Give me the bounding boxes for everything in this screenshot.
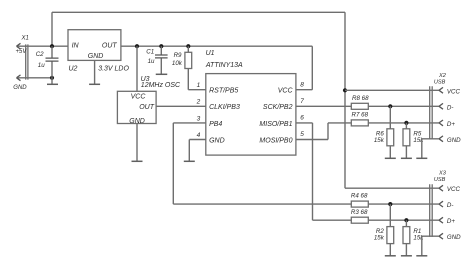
svg-text:R7 68: R7 68 bbox=[352, 112, 369, 119]
node U3 VCC tap bbox=[135, 44, 139, 48]
svg-text:3.3V LDO: 3.3V LDO bbox=[98, 66, 129, 73]
svg-text:10k: 10k bbox=[172, 60, 183, 67]
svg-text:5: 5 bbox=[300, 131, 304, 138]
svg-text:R4 68: R4 68 bbox=[351, 193, 368, 200]
wire top +5V rail bbox=[52, 12, 345, 188]
svg-text:6: 6 bbox=[300, 115, 304, 122]
regulator U2 bbox=[68, 30, 129, 73]
svg-text:D-: D- bbox=[447, 202, 454, 209]
wire R8 to X2 D- bbox=[368, 105, 439, 107]
MCU U1 ATTINY13A bbox=[196, 50, 305, 155]
node X3 D+ / R1 bbox=[404, 218, 408, 222]
wire pin 7 SCK to R8 bbox=[296, 105, 351, 107]
wire X2 VCC bbox=[345, 89, 439, 91]
svg-text:U2: U2 bbox=[69, 66, 78, 73]
svg-text:8: 8 bbox=[300, 81, 304, 88]
ground under X2 GND bbox=[416, 157, 427, 159]
svg-text:ATTINY13A: ATTINY13A bbox=[205, 62, 243, 69]
svg-text:VCC: VCC bbox=[447, 186, 461, 193]
svg-text:3: 3 bbox=[197, 115, 201, 122]
svg-text:D-: D- bbox=[447, 104, 454, 111]
node GND junction bbox=[50, 76, 54, 80]
svg-text:X1: X1 bbox=[21, 35, 29, 41]
ground under R5 bbox=[401, 157, 412, 159]
wire pin 3 PB4 to X3 D- bbox=[173, 123, 351, 204]
svg-text:D+: D+ bbox=[447, 218, 455, 225]
wire R7 to X2 D+ bbox=[368, 122, 439, 124]
oscillator U3 bbox=[117, 46, 181, 125]
resistor R2 bbox=[374, 204, 394, 256]
node R9 tap bbox=[186, 44, 190, 48]
svg-text:12MHz OSC: 12MHz OSC bbox=[141, 82, 181, 89]
wire pin 5 MOSI jog up to R7 bbox=[296, 123, 351, 140]
svg-text:15k: 15k bbox=[374, 235, 385, 242]
svg-text:CLKI/PB3: CLKI/PB3 bbox=[209, 104, 240, 111]
capacitor C2 bbox=[36, 46, 59, 78]
svg-text:USB: USB bbox=[434, 177, 446, 183]
svg-text:VCC: VCC bbox=[278, 88, 294, 95]
svg-text:GND: GND bbox=[447, 137, 461, 144]
svg-text:1u: 1u bbox=[148, 58, 155, 65]
svg-text:X3: X3 bbox=[438, 171, 447, 177]
svg-text:15k: 15k bbox=[374, 137, 385, 144]
ground under R2 bbox=[385, 255, 396, 257]
svg-text:MISO/PB1: MISO/PB1 bbox=[259, 121, 292, 128]
svg-text:OUT: OUT bbox=[139, 104, 155, 111]
ground under C2/X1 bbox=[47, 78, 58, 85]
ground under U3 bbox=[132, 124, 143, 162]
resistor R7 bbox=[351, 112, 368, 126]
svg-text:RST/PB5: RST/PB5 bbox=[209, 88, 238, 95]
node X2 D+ / R5 bbox=[404, 121, 408, 125]
resistor R4 bbox=[351, 193, 368, 207]
resistor R8 bbox=[351, 95, 369, 109]
svg-text:SCK/PB2: SCK/PB2 bbox=[263, 104, 293, 111]
svg-text:GND: GND bbox=[13, 85, 27, 91]
ground under X3 GND bbox=[416, 255, 427, 257]
svg-text:X2: X2 bbox=[438, 73, 447, 79]
svg-text:+5V: +5V bbox=[16, 49, 28, 55]
wire R3 to X3 D+ bbox=[368, 219, 439, 221]
svg-text:R3 68: R3 68 bbox=[351, 209, 368, 216]
wire pin 6 MISO to X3 D+ bbox=[296, 123, 351, 220]
node X2 D- / R6 bbox=[388, 104, 392, 108]
wire X3 GND bbox=[422, 236, 439, 256]
svg-text:7: 7 bbox=[300, 98, 304, 105]
ground under R1 bbox=[401, 255, 412, 257]
svg-text:MOSI/PB0: MOSI/PB0 bbox=[259, 137, 292, 144]
svg-text:C2: C2 bbox=[36, 51, 44, 58]
resistor R9 bbox=[172, 46, 192, 89]
wire U3 OUT to pin 2 bbox=[156, 105, 206, 107]
ground under U2 bbox=[89, 60, 100, 84]
wire pin 4 GND bbox=[189, 140, 206, 162]
svg-text:C1: C1 bbox=[146, 48, 154, 55]
svg-text:D+: D+ bbox=[447, 121, 455, 128]
svg-text:1u: 1u bbox=[38, 62, 45, 69]
svg-text:1: 1 bbox=[197, 82, 201, 89]
svg-text:GND: GND bbox=[88, 53, 104, 60]
wire X3 VCC bbox=[345, 187, 439, 189]
capacitor C1 bbox=[146, 46, 167, 74]
resistor R5 bbox=[403, 123, 424, 158]
node X2 VCC tap bbox=[343, 88, 347, 92]
wire X2 GND bbox=[422, 139, 439, 159]
connector X1 bbox=[13, 35, 68, 91]
svg-text:OUT: OUT bbox=[102, 43, 118, 50]
svg-text:USB: USB bbox=[434, 80, 446, 86]
node +5V junction bbox=[50, 44, 54, 48]
svg-text:VCC: VCC bbox=[131, 94, 147, 101]
svg-text:VCC: VCC bbox=[447, 88, 461, 95]
ground under pin 4 bbox=[184, 160, 195, 162]
svg-text:R9: R9 bbox=[174, 52, 182, 59]
connector X3 USB bbox=[430, 171, 461, 242]
wire 3.3V rail from U2 OUT to pin 8 bbox=[121, 46, 312, 89]
svg-text:4: 4 bbox=[197, 132, 201, 139]
svg-text:U1: U1 bbox=[206, 50, 215, 57]
svg-text:GND: GND bbox=[209, 137, 225, 144]
ground under C1 bbox=[156, 73, 168, 75]
resistor R1 bbox=[403, 220, 424, 256]
svg-text:15k: 15k bbox=[413, 137, 424, 144]
wire R9 to pin 1 bbox=[188, 89, 206, 91]
resistor R6 bbox=[374, 106, 394, 158]
svg-text:PB4: PB4 bbox=[209, 121, 222, 128]
svg-text:R8 68: R8 68 bbox=[352, 95, 369, 102]
svg-text:2: 2 bbox=[196, 99, 201, 106]
connector X2 USB bbox=[430, 73, 461, 144]
svg-text:GND: GND bbox=[447, 234, 461, 241]
node C1 tap bbox=[159, 44, 163, 48]
wire R4 to X3 D- bbox=[368, 203, 439, 205]
svg-text:IN: IN bbox=[72, 43, 80, 50]
resistor R3 bbox=[351, 209, 368, 223]
node X3 D- / R2 bbox=[388, 202, 392, 206]
ground under R6 bbox=[385, 157, 396, 159]
